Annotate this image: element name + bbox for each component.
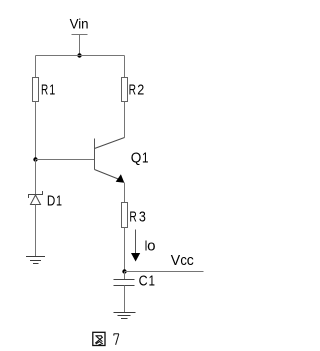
svg-text:R: R: [41, 82, 48, 99]
transistor Q1 emitter stroke: [95, 170, 120, 180]
caption numeral 7: [114, 334, 119, 345]
resistor R2: [122, 78, 128, 102]
label D1: [47, 192, 62, 209]
svg-text:1: 1: [142, 150, 149, 167]
caption character tu (figure): [93, 332, 105, 345]
transistor Q1 base bar: [94, 139, 96, 170]
wire R1 bottom to base node: [35, 102, 37, 160]
label Io: [145, 238, 156, 255]
current arrow Io shaft: [135, 230, 137, 254]
svg-text:1: 1: [56, 192, 62, 209]
wire top rail: [36, 55, 125, 57]
capacitor C1 bottom plate: [114, 285, 135, 287]
ground right: [114, 313, 136, 319]
wire Vin lead: [79, 35, 81, 56]
capacitor C1 top plate: [114, 279, 135, 281]
svg-text:D: D: [47, 192, 56, 209]
diode D1 zener right tick: [42, 191, 44, 195]
resistor R3: [122, 203, 128, 228]
transistor Q1 collector stroke: [95, 138, 125, 149]
wire C1 to ground: [124, 286, 126, 313]
svg-text:Vin: Vin: [70, 16, 89, 31]
wire base node to D1: [35, 160, 37, 195]
wire top-right drop to R2: [124, 56, 126, 78]
svg-text:1: 1: [149, 273, 156, 290]
node Vin label: [70, 16, 89, 31]
label R1: [41, 82, 55, 99]
label C1: [139, 273, 155, 290]
Vin terminal: [72, 34, 88, 36]
wire top-left drop to R1: [35, 56, 37, 78]
svg-text:1: 1: [49, 82, 55, 99]
wire emitter lead to R3: [124, 183, 126, 203]
label Vcc: [171, 252, 194, 269]
svg-text:c: c: [187, 252, 194, 269]
ground left: [26, 257, 45, 264]
label R2: [129, 81, 145, 98]
svg-text:2: 2: [137, 81, 144, 98]
node Vcc junction: [122, 269, 126, 273]
diode D1 triangle: [31, 195, 41, 205]
wire Vcc rail: [125, 271, 204, 273]
svg-text:V: V: [171, 252, 180, 269]
label R3: [129, 208, 146, 225]
diode D1 zener left tick: [28, 195, 30, 199]
wire D1 to ground: [35, 205, 37, 257]
transistor Q1 emitter arrowhead: [116, 174, 125, 183]
svg-text:R: R: [129, 81, 137, 98]
diode D1 cathode bar (zener): [28, 194, 43, 196]
resistor R1: [33, 78, 39, 102]
node base junction: [33, 157, 37, 161]
label Q1: [131, 150, 149, 167]
svg-text:o: o: [147, 238, 155, 255]
node Vin junction: [77, 53, 81, 57]
svg-text:Q: Q: [131, 150, 142, 167]
wire R3 bottom to Vcc rail: [124, 228, 126, 272]
wire junction to C1: [124, 272, 126, 280]
svg-text:C: C: [139, 273, 148, 290]
wire R2 bottom to collector: [124, 102, 126, 138]
wire base: [36, 159, 95, 161]
current arrow Io head: [131, 253, 140, 262]
svg-text:3: 3: [139, 208, 146, 225]
svg-text:R: R: [129, 208, 137, 225]
